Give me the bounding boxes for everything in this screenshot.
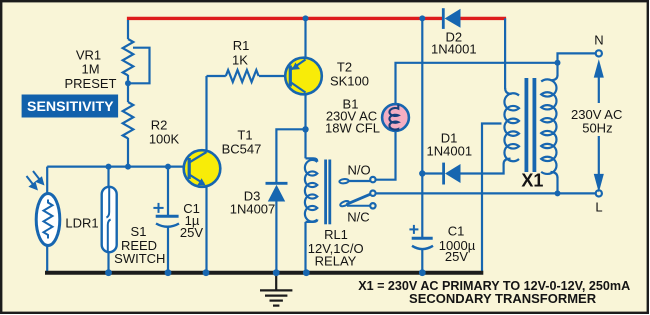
relay RL1 core bars <box>324 160 331 225</box>
svg-text:BC547: BC547 <box>222 142 262 157</box>
svg-text:18W CFL: 18W CFL <box>325 121 380 136</box>
transformer X1 secondary coil <box>504 93 519 161</box>
svg-text:SENSITIVITY: SENSITIVITY <box>27 98 114 114</box>
junction VR1 wiper <box>125 80 131 86</box>
transistor T2 <box>285 58 322 95</box>
wire C1b bottom <box>421 248 423 273</box>
svg-text:RELAY: RELAY <box>315 254 357 269</box>
wire branch to D3 <box>276 129 305 182</box>
junction primary top node <box>555 60 561 66</box>
svg-text:1N4001: 1N4001 <box>427 144 473 159</box>
wire LDR column <box>46 167 48 195</box>
wire T1 collector up <box>205 76 207 151</box>
wire primary top lead <box>556 63 558 76</box>
svg-text:R1: R1 <box>233 38 250 53</box>
junction ground RL1 <box>303 269 310 276</box>
SENSITIVITY box <box>22 95 119 118</box>
svg-text:1N4001: 1N4001 <box>431 42 477 57</box>
ground symbol <box>260 274 292 306</box>
svg-text:SECONDARY TRANSFORMER: SECONDARY TRANSFORMER <box>409 291 597 306</box>
wire relay coil bottom to rail <box>304 222 306 272</box>
svg-text:N: N <box>594 33 603 48</box>
wire D1 left lead <box>422 172 443 174</box>
diode D1 <box>444 163 461 185</box>
svg-text:LDR1: LDR1 <box>65 216 98 231</box>
svg-text:SK100: SK100 <box>330 74 369 89</box>
junction ground S1 <box>105 269 112 276</box>
resistor R2 zigzag <box>123 102 134 138</box>
svg-text:X1: X1 <box>521 171 543 191</box>
lamp B1 CFL <box>382 104 409 131</box>
junction ground C1 <box>165 269 172 276</box>
svg-text:N/O: N/O <box>347 163 370 178</box>
svg-text:RL1: RL1 <box>324 227 348 242</box>
LDR1 <box>27 171 60 246</box>
terminal N <box>596 50 602 56</box>
wire VR1 to R2 <box>127 75 129 102</box>
svg-text:T1: T1 <box>237 128 252 143</box>
junction R2 tap <box>125 164 131 170</box>
wire VR1 top lead <box>127 20 129 39</box>
wire N/O contact bar <box>348 180 371 182</box>
relay RL1 coil <box>305 160 317 222</box>
svg-text:C1: C1 <box>448 223 465 238</box>
wire C1a column <box>167 167 169 215</box>
wire D3 anode to rail <box>275 202 277 272</box>
relay contact N/C circle <box>370 203 375 208</box>
svg-text:S1: S1 <box>131 224 147 239</box>
wire base rail horizontal <box>47 166 188 168</box>
relay arm <box>347 194 372 205</box>
wire VR1 wiper bracket <box>128 48 150 84</box>
diode D3 <box>266 183 288 201</box>
relay common circle <box>370 191 375 196</box>
wire pivot to N/C contact <box>347 205 370 207</box>
transformer X1 primary coil <box>541 79 556 174</box>
transistor T1 <box>184 150 221 187</box>
reed switch S1 <box>102 187 117 252</box>
relay contact N/O circle <box>370 177 375 182</box>
relay arm pivot ellipse <box>340 200 350 207</box>
capacitor C1 1u plates <box>153 203 179 227</box>
wire red positive rail <box>127 17 443 20</box>
wire primary bottom lead <box>556 178 558 194</box>
wire T1 emitter down <box>205 186 207 272</box>
wire B1 top lead <box>396 63 557 104</box>
ground rail <box>45 271 483 275</box>
junction ground C1b <box>419 269 426 276</box>
junction T2 emitter to rail <box>303 15 309 21</box>
relay contact N/O terminal ellipse <box>339 179 349 184</box>
svg-text:1M: 1M <box>81 62 99 77</box>
wire secondary top lead <box>504 18 506 89</box>
wire node422 column <box>421 18 423 237</box>
wire T2 collector down <box>304 94 306 158</box>
svg-text:25V: 25V <box>180 225 203 240</box>
junction S1 tap <box>106 164 112 170</box>
capacitor C1 1000u plates <box>409 225 433 249</box>
wire T2 top lead <box>304 20 306 58</box>
svg-text:1N4007: 1N4007 <box>230 202 276 217</box>
svg-text:1K: 1K <box>232 53 248 68</box>
diode D2 <box>443 8 460 29</box>
wire R2 bottom <box>127 138 129 167</box>
junction D1 cathode node <box>419 170 425 176</box>
mains arrow <box>595 63 602 188</box>
wire center tap <box>482 124 502 272</box>
junction ground D3 <box>273 269 280 276</box>
bottom note <box>358 278 631 306</box>
terminal L <box>596 190 602 196</box>
resistor VR1 zigzag <box>123 39 134 75</box>
svg-text:PRESET: PRESET <box>64 76 116 91</box>
junction ground T1 emitter <box>203 269 210 276</box>
svg-text:25V: 25V <box>445 249 468 264</box>
svg-text:T2: T2 <box>337 60 352 75</box>
junction T2 collector node <box>302 126 308 132</box>
junction primary bottom node <box>555 190 561 196</box>
svg-text:100K: 100K <box>149 132 180 147</box>
wire R1 to T2 base <box>259 75 289 77</box>
svg-text:VR1: VR1 <box>76 48 101 63</box>
junction C1 tap <box>165 164 171 170</box>
svg-text:R2: R2 <box>151 118 168 133</box>
transformer X1 core bars <box>525 78 537 172</box>
resistor R1 zigzag <box>226 70 259 82</box>
svg-text:SWITCH: SWITCH <box>114 251 165 266</box>
wire R1 left lead <box>207 75 226 77</box>
svg-text:50Hz: 50Hz <box>582 121 612 136</box>
wire B1 bottom to N/O contact riser <box>376 131 396 180</box>
svg-text:L: L <box>595 200 602 215</box>
svg-text:N/C: N/C <box>347 210 369 225</box>
wire junction to N terminal <box>558 53 596 62</box>
wire common pole to L <box>376 192 596 194</box>
junction node 422 to rail <box>419 15 425 21</box>
wire reed column <box>107 167 109 188</box>
wire D1 right lead to secondary bottom <box>461 164 504 174</box>
